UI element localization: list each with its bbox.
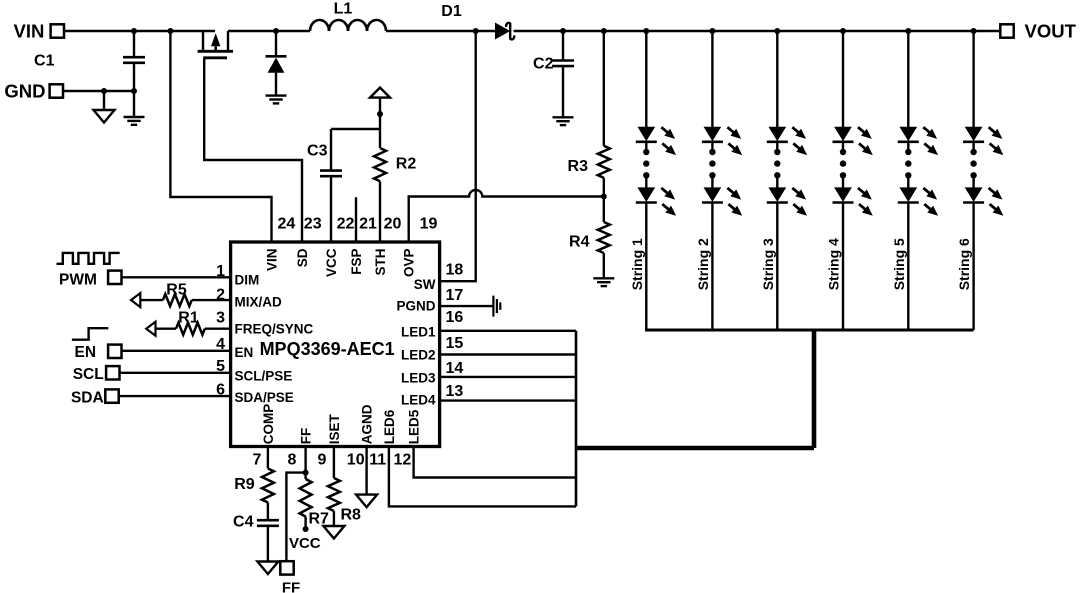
wire PWM to DIM pin1	[122, 276, 231, 278]
label VCC	[289, 535, 321, 552]
wire COMP stub	[267, 447, 269, 469]
pin name VCC	[324, 248, 339, 277]
pin name LED6	[382, 409, 397, 444]
node C1/GND junction	[131, 88, 137, 94]
svg-text:R4: R4	[569, 233, 590, 250]
svg-text:D1: D1	[441, 3, 462, 20]
pin name LED4	[401, 393, 436, 408]
wire SW pin to rail	[441, 31, 476, 281]
wire ISET stub	[333, 447, 335, 479]
resistor R1	[176, 309, 205, 334]
svg-text:SDA/PSE: SDA/PSE	[235, 390, 294, 405]
pin name LED3	[401, 371, 436, 386]
ground signal below R8	[323, 526, 344, 539]
pin number 6	[216, 381, 225, 398]
pin name MIX/AD	[235, 294, 283, 309]
pin name FREQ/SYNC	[235, 322, 314, 337]
svg-text:GND: GND	[4, 81, 45, 102]
wire GND to C1	[63, 90, 134, 92]
node GND tap	[101, 88, 107, 94]
arrow FREQ/SYNC input	[146, 322, 155, 336]
pin number 3	[216, 310, 225, 327]
ground signal below GND	[94, 110, 115, 123]
svg-text:AGND: AGND	[359, 404, 374, 444]
wire heavy bus horizontal	[576, 446, 814, 451]
diode clamp	[266, 31, 287, 95]
svg-text:LED5: LED5	[406, 409, 421, 444]
terminal SCL	[73, 366, 120, 383]
svg-text:FF: FF	[298, 428, 313, 445]
wire rail L1 to SW tap	[386, 30, 476, 32]
pin name ISET	[327, 414, 342, 445]
resistor R4	[569, 197, 610, 278]
op-amp U1 MPQ3369-AEC1 body	[231, 242, 440, 447]
resistor R9	[234, 469, 274, 503]
wire arrow to R1	[156, 328, 177, 330]
LED string 2	[695, 28, 742, 330]
svg-text:LED3: LED3	[401, 371, 436, 386]
resistor R3	[568, 31, 610, 197]
wire LED5 pin12 route	[414, 447, 576, 478]
svg-text:VCC: VCC	[324, 248, 339, 277]
svg-text:R5: R5	[166, 281, 187, 298]
wire LED6 pin11 route	[389, 447, 576, 507]
svg-text:String 6: String 6	[956, 238, 972, 290]
svg-text:23: 23	[304, 215, 322, 232]
wire LED2 to bus	[441, 353, 576, 355]
inductor L1	[310, 0, 386, 31]
svg-text:SCL/PSE: SCL/PSE	[235, 368, 293, 383]
svg-text:VOUT: VOUT	[1025, 21, 1077, 42]
pin name SW	[414, 277, 436, 292]
wire OVP to divider with hop	[409, 190, 604, 242]
pin name LED2	[401, 348, 436, 363]
svg-text:17: 17	[446, 287, 464, 304]
pin number 14	[446, 360, 464, 377]
svg-text:19: 19	[420, 215, 438, 232]
pin number 23	[304, 215, 322, 232]
wire R1 to pin3	[205, 328, 231, 330]
terminal PWM	[59, 271, 121, 289]
svg-text:12: 12	[394, 452, 412, 469]
wire Q1 gate to pin23 SD	[204, 59, 302, 242]
svg-text:MPQ3369-AEC1: MPQ3369-AEC1	[260, 339, 395, 359]
transistor Q1 source lead	[227, 31, 229, 51]
wire LED bus vertical	[575, 331, 578, 507]
svg-text:STH: STH	[373, 249, 388, 276]
LED string 6	[956, 28, 1003, 330]
pin number 21	[359, 215, 377, 232]
node clamp diode tap	[273, 28, 279, 34]
capacitor C2	[533, 31, 574, 117]
pin name EN	[235, 345, 254, 360]
svg-text:9: 9	[318, 452, 327, 469]
wire VIN rail left	[63, 30, 215, 32]
svg-text:R2: R2	[396, 156, 417, 173]
transistor Q1 arrow	[211, 33, 220, 51]
pin number 8	[288, 452, 297, 469]
pin number 12	[394, 452, 412, 469]
pin name OVP	[402, 249, 417, 278]
svg-text:C1: C1	[34, 52, 55, 69]
wire heavy bus vertical	[812, 330, 817, 448]
svg-text:VIN: VIN	[264, 249, 279, 272]
transistor Q1 gate bar	[203, 56, 227, 59]
wire SCL to pin5	[120, 372, 231, 374]
svg-text:C4: C4	[233, 514, 254, 531]
pin number 24	[278, 215, 296, 232]
node R3 tap	[601, 28, 607, 34]
ground signal below AGND	[356, 495, 377, 508]
svg-text:FF: FF	[282, 580, 300, 593]
svg-text:PGND: PGND	[396, 299, 435, 314]
terminal VOUT	[1000, 21, 1076, 42]
svg-text:14: 14	[446, 360, 464, 377]
pin number 15	[446, 335, 464, 352]
resistor R2	[374, 148, 416, 242]
node FF junction	[303, 470, 309, 476]
pin number 17	[446, 287, 464, 304]
svg-text:13: 13	[446, 383, 464, 400]
resistor R5	[163, 281, 192, 306]
node R2 top	[377, 111, 383, 117]
wire EN to pin4	[122, 350, 231, 352]
svg-text:ISET: ISET	[327, 414, 342, 445]
svg-text:String 5: String 5	[891, 238, 907, 290]
svg-text:DIM: DIM	[235, 273, 260, 288]
svg-text:LED6: LED6	[382, 409, 397, 444]
LED string 3	[760, 28, 807, 330]
svg-text:LED4: LED4	[401, 393, 436, 408]
svg-text:String 3: String 3	[760, 238, 776, 290]
svg-text:VCC: VCC	[289, 535, 321, 552]
wire string bottom bus	[645, 329, 974, 332]
transistor Q1 drain lead	[202, 31, 204, 51]
node OVP divider junction	[601, 194, 607, 200]
pin name LED5	[406, 409, 421, 444]
svg-text:COMP: COMP	[261, 404, 276, 445]
svg-text:LED2: LED2	[401, 348, 436, 363]
wire VCC node horizontal	[331, 128, 380, 130]
pin number 2	[216, 286, 225, 303]
diode D1	[441, 3, 514, 39]
svg-text:MIX/AD: MIX/AD	[235, 294, 283, 309]
pin name SDA/PSE	[235, 390, 294, 405]
svg-text:21: 21	[359, 215, 377, 232]
svg-text:EN: EN	[75, 344, 97, 361]
ground signal below C4	[257, 562, 278, 575]
power VCC triangle above R2	[370, 88, 390, 98]
pin name SCL/PSE	[235, 368, 293, 383]
wire FF branch to terminal	[286, 473, 305, 561]
wire LED3 to bus	[441, 376, 576, 378]
terminal EN	[75, 344, 122, 361]
pin name FSP	[349, 249, 364, 275]
pin number 16	[446, 309, 464, 326]
svg-text:SD: SD	[295, 248, 310, 267]
symbol PWM squarewave	[57, 253, 120, 264]
node VCC node	[303, 526, 309, 532]
svg-text:String 1: String 1	[629, 238, 645, 290]
svg-text:16: 16	[446, 309, 464, 326]
wire rail Q1 to L1	[228, 30, 310, 32]
pin number 22	[337, 215, 355, 232]
svg-text:String 2: String 2	[695, 238, 711, 290]
capacitor C3	[307, 129, 342, 242]
node C1 tap	[131, 28, 137, 34]
svg-text:C3: C3	[307, 142, 328, 159]
wire VIN tap to pin24	[170, 31, 271, 242]
terminal SDA	[71, 389, 119, 406]
symbol EN step	[72, 328, 108, 340]
svg-text:3: 3	[216, 310, 225, 327]
pin name VIN	[264, 249, 279, 272]
svg-text:24: 24	[278, 215, 296, 232]
pin name SD	[295, 248, 310, 267]
wire arrow to R5	[140, 299, 163, 301]
wire R8 to ground	[333, 511, 335, 526]
wire GND stub down	[103, 91, 105, 110]
pin number 10	[347, 452, 365, 469]
svg-text:OVP: OVP	[402, 249, 417, 278]
pin number 1	[216, 263, 225, 280]
arrow MIX/AD input	[131, 293, 140, 307]
pin number 13	[446, 383, 464, 400]
node C2 tap	[560, 28, 566, 34]
svg-text:R1: R1	[178, 309, 199, 326]
ground earth below C1	[124, 117, 145, 125]
capacitor C1	[34, 31, 145, 116]
pin number 7	[253, 452, 262, 469]
pin number 11	[369, 452, 386, 469]
svg-text:FSP: FSP	[349, 249, 364, 275]
pin number 19	[420, 215, 438, 232]
pin name AGND	[359, 404, 374, 444]
svg-text:R8: R8	[341, 506, 362, 523]
wire rail D1 to VOUT	[514, 30, 1000, 32]
ground earth below clamp diode	[266, 96, 287, 104]
resistor R7	[300, 473, 329, 529]
terminal GND	[4, 81, 63, 102]
svg-text:R9: R9	[234, 476, 255, 493]
svg-text:15: 15	[446, 335, 464, 352]
svg-text:10: 10	[347, 452, 365, 469]
LED string 5	[891, 28, 938, 330]
pin number 18	[446, 262, 464, 279]
node VIN-pin24 tap	[167, 28, 173, 34]
svg-text:VIN: VIN	[14, 20, 45, 41]
wire LED1 to bus	[441, 330, 576, 332]
pin name COMP	[261, 404, 276, 445]
svg-text:SW: SW	[414, 277, 436, 292]
ground earth below R4	[593, 278, 614, 286]
svg-text:SDA: SDA	[71, 390, 104, 407]
svg-text:FREQ/SYNC: FREQ/SYNC	[235, 322, 314, 337]
svg-text:7: 7	[253, 452, 262, 469]
resistor R8	[328, 478, 361, 523]
LED string 4	[826, 28, 873, 330]
svg-text:PWM: PWM	[59, 271, 97, 288]
svg-text:SCL: SCL	[73, 366, 104, 383]
wire rail SW tap to D1	[476, 30, 495, 32]
pin number 5	[216, 358, 225, 375]
svg-text:EN: EN	[235, 345, 254, 360]
wire R5 to pin2	[192, 299, 231, 301]
svg-text:20: 20	[384, 215, 402, 232]
svg-text:8: 8	[288, 452, 297, 469]
wire FF stub	[304, 447, 306, 473]
wire LED4 to bus	[441, 399, 576, 401]
ground earth below C2	[553, 117, 574, 125]
wire FSP stub pin21	[355, 197, 357, 242]
svg-text:String 4: String 4	[826, 238, 842, 290]
node SW tap	[473, 28, 479, 34]
pin name STH	[373, 249, 388, 276]
terminal VIN	[14, 20, 64, 41]
svg-text:R3: R3	[568, 158, 589, 175]
pin number 9	[318, 452, 327, 469]
wire AGND stub	[365, 447, 367, 495]
ground PGND sideways	[493, 296, 500, 317]
wire R9 to C4	[267, 503, 269, 520]
pin name PGND	[396, 299, 435, 314]
pin name LED1	[401, 325, 436, 340]
capacitor C4	[233, 514, 279, 531]
svg-text:LED1: LED1	[401, 325, 436, 340]
pin name DIM	[235, 273, 260, 288]
LED string 1	[629, 28, 676, 330]
pin number 20	[384, 215, 402, 232]
wire C4 to ground	[267, 527, 269, 562]
transistor Q1 channel bar	[198, 50, 233, 53]
pin name FF	[298, 428, 313, 445]
wire SDA to pin6	[119, 395, 231, 397]
svg-text:L1: L1	[334, 0, 353, 17]
svg-text:11: 11	[369, 452, 386, 469]
wire PGND	[441, 305, 494, 307]
svg-text:22: 22	[337, 215, 355, 232]
terminal FF	[280, 561, 300, 593]
pin number 4	[216, 336, 225, 353]
wire VCC triangle to R2	[379, 98, 381, 148]
svg-text:18: 18	[446, 262, 464, 279]
svg-text:C2: C2	[533, 55, 554, 72]
